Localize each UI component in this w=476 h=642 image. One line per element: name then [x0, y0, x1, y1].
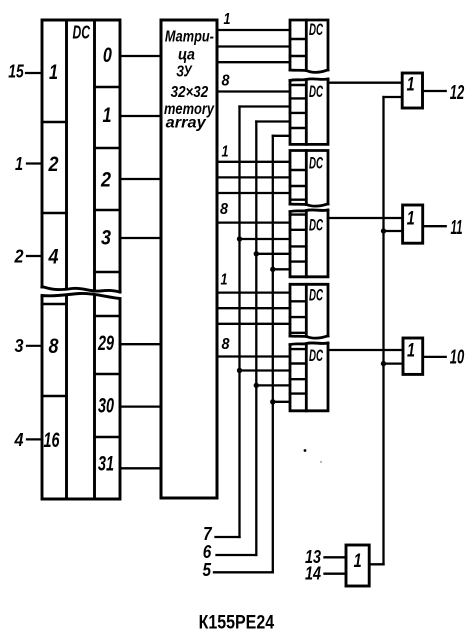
- svg-text:array: array: [166, 115, 207, 132]
- svg-text:1: 1: [407, 340, 415, 361]
- svg-text:31: 31: [98, 453, 114, 476]
- svg-text:8: 8: [222, 336, 230, 353]
- svg-text:12: 12: [450, 82, 465, 104]
- svg-text:1: 1: [15, 154, 23, 174]
- svg-text:10: 10: [450, 346, 465, 368]
- svg-text:1: 1: [221, 272, 228, 289]
- svg-text:30: 30: [98, 395, 114, 418]
- svg-text:5: 5: [203, 560, 212, 580]
- svg-text:1: 1: [407, 75, 415, 96]
- svg-text:1: 1: [49, 61, 58, 84]
- svg-text:2: 2: [48, 153, 59, 176]
- svg-text:2: 2: [100, 169, 111, 192]
- svg-text:К155РЕ24: К155РЕ24: [199, 611, 275, 633]
- svg-text:4: 4: [48, 246, 59, 269]
- svg-text:Матри-: Матри-: [165, 28, 214, 45]
- svg-text:DC: DC: [309, 286, 323, 305]
- svg-text:DC: DC: [73, 23, 91, 43]
- svg-text:ЗУ: ЗУ: [176, 64, 192, 81]
- svg-text:16: 16: [44, 429, 60, 452]
- svg-text:1: 1: [103, 104, 112, 127]
- svg-text:8: 8: [220, 201, 228, 218]
- svg-text:1: 1: [354, 551, 362, 572]
- svg-text:15: 15: [8, 62, 24, 82]
- svg-text:8: 8: [49, 335, 59, 358]
- svg-text:8: 8: [222, 73, 230, 90]
- svg-text:4: 4: [14, 430, 24, 450]
- svg-text:1: 1: [407, 209, 415, 230]
- svg-text:7: 7: [203, 524, 212, 544]
- svg-text:3: 3: [15, 336, 24, 356]
- svg-text:29: 29: [97, 332, 114, 355]
- svg-text:3: 3: [101, 227, 111, 250]
- svg-text:DC: DC: [309, 215, 323, 234]
- svg-text:14: 14: [305, 564, 321, 584]
- svg-text:32×32: 32×32: [171, 84, 209, 101]
- svg-text:DC: DC: [309, 20, 323, 39]
- svg-text:DC: DC: [309, 154, 323, 173]
- svg-text:2: 2: [14, 247, 24, 267]
- svg-text:DC: DC: [309, 82, 323, 101]
- svg-text:1: 1: [222, 144, 229, 161]
- svg-text:0: 0: [103, 44, 112, 67]
- svg-text:DC: DC: [309, 346, 323, 365]
- svg-text:1: 1: [224, 11, 231, 28]
- svg-text:11: 11: [451, 217, 463, 239]
- svg-text:ца: ца: [178, 47, 195, 64]
- svg-text:6: 6: [203, 542, 212, 562]
